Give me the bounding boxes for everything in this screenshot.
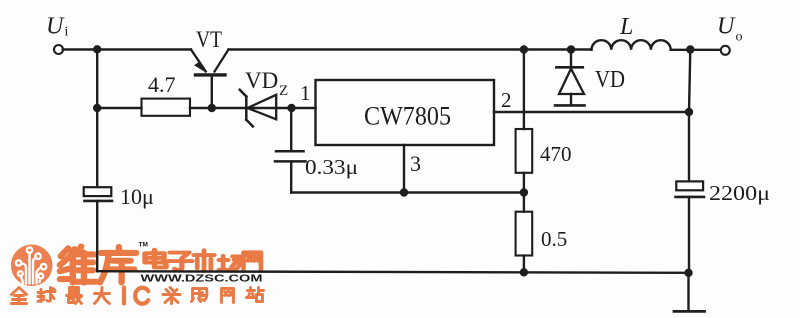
svg-text:L: L <box>619 14 633 40</box>
svg-text:0.33μ: 0.33μ <box>305 155 358 179</box>
watermark char zui <box>67 288 82 304</box>
watermark char wang2 <box>222 289 234 303</box>
svg-text:VD: VD <box>245 68 278 93</box>
diode VD <box>555 50 585 106</box>
wire bottom rail <box>97 271 688 273</box>
watermark char dian <box>145 250 166 268</box>
watermark logo traces <box>16 247 46 283</box>
resistor 0.5 <box>516 212 533 256</box>
node mid rail right junction <box>520 188 528 196</box>
wire 0.5 upper <box>523 193 525 212</box>
IC CW7805 U1 <box>316 80 495 145</box>
capacitor 10u <box>84 187 112 196</box>
watermark char shi <box>194 250 214 271</box>
resistor 470 <box>516 129 533 173</box>
node 470 top junction <box>520 45 528 53</box>
watermark letter I <box>122 288 126 304</box>
node bottom rail 0.5 junction <box>520 268 528 276</box>
node pin3 junction <box>400 188 408 196</box>
wire 470 branch upper <box>523 50 525 130</box>
watermark letter C <box>135 288 148 304</box>
svg-text:WWW.DZSC.COM: WWW.DZSC.COM <box>141 273 263 285</box>
wire row resistor to box <box>190 107 316 109</box>
node VD top junction <box>567 45 575 53</box>
wire middle rail <box>291 191 524 193</box>
wire 10u lead lower <box>96 201 98 271</box>
watermark char quan <box>12 288 27 304</box>
node pin2 right junction <box>685 108 693 116</box>
svg-text:0.5: 0.5 <box>541 227 567 251</box>
node base junction <box>208 104 216 112</box>
svg-text:U: U <box>717 14 736 40</box>
watermark logo disc <box>11 244 53 286</box>
wire cap 0.33 lead lower <box>290 161 292 192</box>
zener diode VDz <box>240 90 276 127</box>
wire left vertical upper <box>96 49 98 187</box>
wire pin3 <box>403 145 405 193</box>
capacitor 2200u <box>676 181 703 190</box>
watermark char chang <box>219 256 241 271</box>
svg-text:2: 2 <box>501 88 512 112</box>
wire top rail mid <box>229 48 592 50</box>
svg-text:o: o <box>736 30 743 45</box>
capacitor 0.33u <box>276 150 304 153</box>
node input junction <box>93 45 101 53</box>
svg-text:1: 1 <box>300 81 311 105</box>
watermark char zhan <box>247 288 264 302</box>
wire 470 to mid rail <box>523 173 525 193</box>
svg-text:10μ: 10μ <box>120 184 154 209</box>
svg-text:i: i <box>65 25 69 40</box>
watermark char da <box>95 288 110 304</box>
resistor 4.7 <box>142 99 191 116</box>
watermark char gou <box>192 289 207 302</box>
watermark char zi <box>168 253 192 270</box>
node left row junction <box>93 104 101 112</box>
svg-text:U: U <box>46 14 65 40</box>
input terminal Ui <box>54 45 63 54</box>
watermark char qiu <box>38 288 55 302</box>
svg-text:TM: TM <box>139 242 148 249</box>
wire cap 0.33 lead upper <box>290 108 292 151</box>
wire pin2 <box>494 111 689 113</box>
wire top rail left <box>63 48 191 50</box>
wire 0.5 to bottom rail <box>523 256 525 273</box>
svg-text:3: 3 <box>410 151 421 176</box>
wire right vertical lower <box>688 197 690 273</box>
inductor L <box>592 40 671 50</box>
node output junction <box>686 45 694 53</box>
watermark char wang <box>243 252 260 270</box>
svg-text:VT: VT <box>196 27 222 52</box>
svg-text:2200μ: 2200μ <box>709 181 770 205</box>
node pin1 junction <box>287 104 295 112</box>
svg-text:VD: VD <box>595 67 625 93</box>
output terminal Uo <box>721 46 730 55</box>
ground <box>687 273 689 311</box>
watermark char cai <box>163 288 180 304</box>
watermark char wei <box>60 247 96 283</box>
wire right vertical upper <box>689 50 690 182</box>
svg-text:470: 470 <box>540 142 572 166</box>
wire top rail right <box>671 49 720 51</box>
wire row to resistor <box>97 107 141 109</box>
watermark char ku <box>100 247 136 283</box>
node bottom right junction <box>684 269 692 277</box>
svg-text:CW7805: CW7805 <box>364 102 451 131</box>
transistor VT <box>191 50 229 109</box>
svg-text:4.7: 4.7 <box>148 72 176 97</box>
svg-text:Z: Z <box>279 83 288 99</box>
